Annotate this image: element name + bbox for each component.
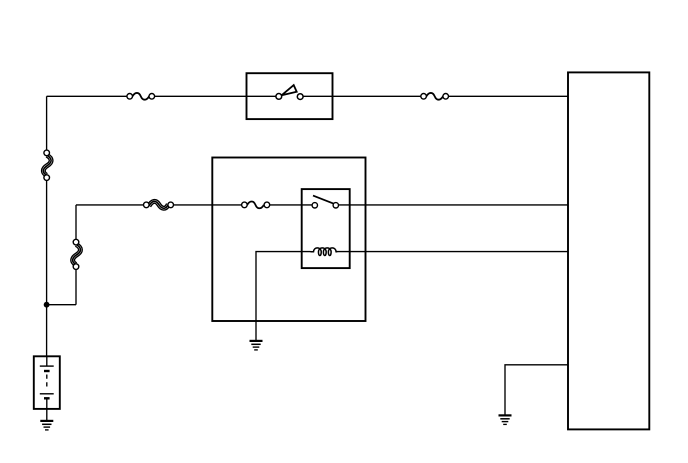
wire top horizontal to switch box xyxy=(155,95,276,97)
fuse F3 xyxy=(242,202,270,209)
fusible link FL1 xyxy=(43,150,51,180)
wire tap vertical upper xyxy=(75,205,77,239)
wire fuse F3 to relay xyxy=(270,204,312,206)
wire middle horizontal to relay assembly box xyxy=(174,204,242,206)
wire middle horizontal left segment xyxy=(76,204,144,206)
relay box xyxy=(302,189,350,268)
relay coil L1 xyxy=(311,248,338,256)
ignition switch box xyxy=(247,73,333,119)
fusible link FL3 xyxy=(144,201,174,208)
wire ECU bottom to ground xyxy=(505,365,568,416)
battery cells xyxy=(40,356,54,421)
wire tap jog horizontal xyxy=(47,304,76,306)
wire top horizontal left segment xyxy=(47,95,127,97)
ground battery xyxy=(40,421,53,430)
wire left vertical upper xyxy=(46,96,48,150)
battery box xyxy=(34,356,60,409)
relay assembly box xyxy=(212,158,365,322)
fuse F1 xyxy=(127,93,155,100)
ignition switch SW1 xyxy=(276,85,303,99)
wire coil left to ground drop xyxy=(256,252,311,341)
ground relay xyxy=(250,341,263,350)
fuse F2 xyxy=(421,93,449,100)
wire fuse F2 to ECU box xyxy=(449,95,569,97)
wire relay switch to ECU xyxy=(339,204,569,206)
wire coil right to ECU xyxy=(336,251,568,253)
ground ECU xyxy=(499,415,512,424)
fusible link FL2 xyxy=(73,239,81,269)
wire tap vertical lower xyxy=(75,269,77,305)
wire left vertical lower to battery xyxy=(46,180,48,356)
node junction battery tap xyxy=(44,302,50,308)
ECU box xyxy=(568,72,649,429)
wire from switch to fuse F2 xyxy=(303,95,421,97)
relay switch contacts xyxy=(312,196,338,208)
